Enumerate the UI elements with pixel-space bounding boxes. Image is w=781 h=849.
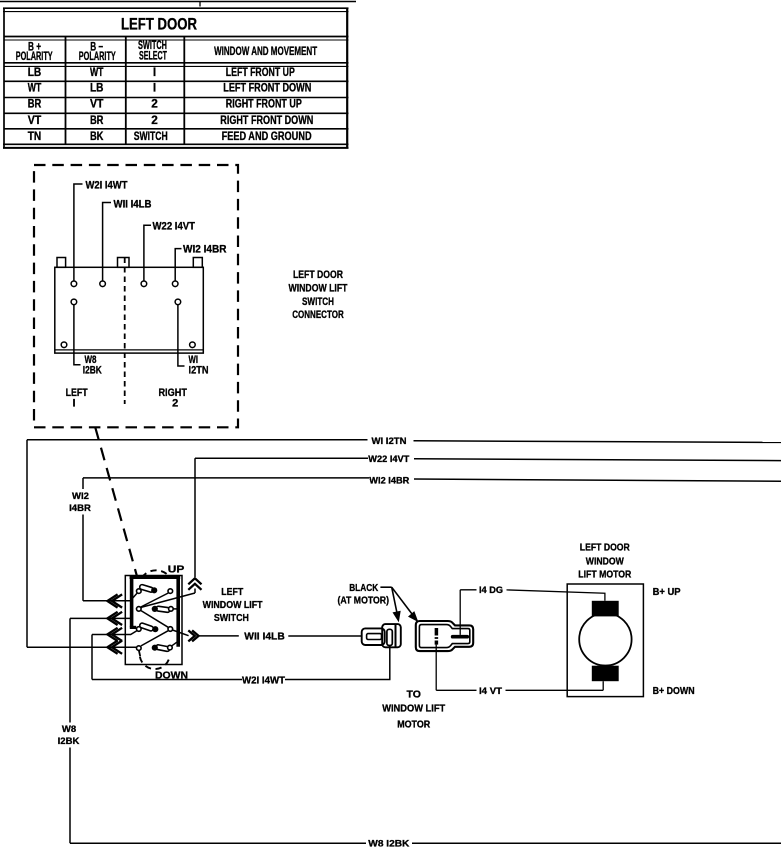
svg-text:UP: UP <box>168 564 185 576</box>
svg-text:POLARITY: POLARITY <box>79 49 116 63</box>
svg-text:W22 I4VT: W22 I4VT <box>153 221 196 233</box>
svg-text:W2I I4WT: W2I I4WT <box>86 179 128 191</box>
svg-text:WII I4LB: WII I4LB <box>244 630 285 642</box>
svg-text:LEFT FRONT DOWN: LEFT FRONT DOWN <box>223 81 311 95</box>
svg-text:SWITCH: SWITCH <box>302 296 334 308</box>
svg-text:RIGHT FRONT DOWN: RIGHT FRONT DOWN <box>220 113 313 127</box>
svg-text:I: I <box>153 81 156 95</box>
svg-text:I: I <box>72 397 75 409</box>
svg-text:2: 2 <box>172 397 178 409</box>
svg-text:B+ UP: B+ UP <box>653 586 681 598</box>
svg-text:BR: BR <box>28 97 42 111</box>
svg-text:LB: LB <box>28 65 42 79</box>
svg-text:WINDOW LIFT: WINDOW LIFT <box>203 599 263 611</box>
svg-text:W22 I4VT: W22 I4VT <box>368 454 409 465</box>
svg-text:POLARITY: POLARITY <box>16 49 53 63</box>
svg-text:TN: TN <box>28 129 42 143</box>
svg-text:LB: LB <box>90 81 104 95</box>
svg-text:LIFT MOTOR: LIFT MOTOR <box>578 569 631 581</box>
svg-text:WI2 I4BR: WI2 I4BR <box>183 243 227 255</box>
svg-text:WINDOW LIFT: WINDOW LIFT <box>289 283 348 295</box>
svg-text:SELECT: SELECT <box>139 48 167 62</box>
svg-text:WINDOW AND MOVEMENT: WINDOW AND MOVEMENT <box>214 44 318 58</box>
svg-text:WI I2TN: WI I2TN <box>372 436 407 447</box>
svg-text:WI2 I4BR: WI2 I4BR <box>369 475 409 486</box>
svg-text:WINDOW: WINDOW <box>586 555 624 567</box>
svg-text:I4BR: I4BR <box>69 503 91 514</box>
svg-text:LEFT: LEFT <box>221 586 243 598</box>
svg-text:SWITCH: SWITCH <box>214 612 249 624</box>
svg-text:VT: VT <box>90 97 104 111</box>
svg-text:I: I <box>153 65 156 79</box>
svg-text:LEFT DOOR: LEFT DOOR <box>121 16 197 34</box>
svg-text:LEFT DOOR: LEFT DOOR <box>293 269 343 281</box>
svg-text:WT: WT <box>28 81 42 95</box>
svg-text:SWITCH: SWITCH <box>134 129 168 143</box>
svg-text:BLACK: BLACK <box>349 582 378 594</box>
svg-text:BR: BR <box>90 113 104 127</box>
svg-text:I2BK: I2BK <box>83 365 102 377</box>
svg-text:WI2: WI2 <box>72 491 89 502</box>
svg-text:LEFT FRONT UP: LEFT FRONT UP <box>226 65 295 79</box>
svg-text:I2BK: I2BK <box>58 736 80 747</box>
svg-text:WII I4LB: WII I4LB <box>114 198 152 210</box>
svg-text:MOTOR: MOTOR <box>397 718 430 730</box>
svg-text:LEFT: LEFT <box>66 387 88 399</box>
svg-text:I4 DG: I4 DG <box>479 585 503 596</box>
svg-text:WINDOW LIFT: WINDOW LIFT <box>382 703 446 715</box>
svg-text:TO: TO <box>406 688 420 700</box>
svg-text:CONNECTOR: CONNECTOR <box>292 309 344 321</box>
svg-text:B+ DOWN: B+ DOWN <box>653 685 695 697</box>
svg-text:LEFT DOOR: LEFT DOOR <box>580 542 630 554</box>
svg-text:I2TN: I2TN <box>189 365 209 377</box>
svg-text:BK: BK <box>90 129 104 143</box>
svg-text:2: 2 <box>151 97 158 111</box>
svg-text:2: 2 <box>151 113 158 127</box>
svg-text:I4 VT: I4 VT <box>479 686 502 697</box>
svg-text:VT: VT <box>28 113 42 127</box>
svg-text:W8: W8 <box>62 724 76 735</box>
svg-text:W8 I2BK: W8 I2BK <box>368 838 409 849</box>
svg-text:WT: WT <box>90 65 104 79</box>
svg-text:W2I I4WT: W2I I4WT <box>242 675 286 687</box>
svg-text:FEED AND GROUND: FEED AND GROUND <box>222 129 312 143</box>
svg-text:(AT MOTOR): (AT MOTOR) <box>338 594 390 606</box>
svg-text:DOWN: DOWN <box>155 670 188 682</box>
svg-text:RIGHT FRONT UP: RIGHT FRONT UP <box>226 97 302 111</box>
